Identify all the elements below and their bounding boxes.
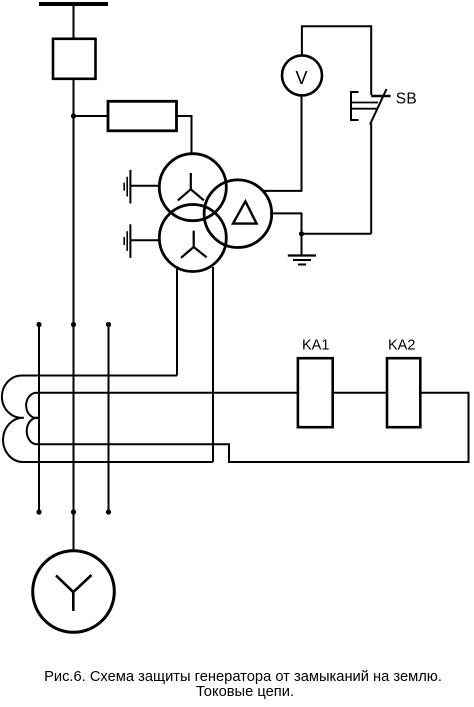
svg-text:KA2: KA2 (388, 338, 415, 354)
svg-text:V: V (295, 68, 307, 88)
svg-text:SB: SB (396, 90, 417, 107)
svg-text:Токовые цепи.: Токовые цепи. (196, 684, 294, 700)
svg-text:Рис.6. Схема защиты генератора: Рис.6. Схема защиты генератора от замыка… (44, 669, 442, 685)
svg-text:KA1: KA1 (302, 338, 329, 354)
